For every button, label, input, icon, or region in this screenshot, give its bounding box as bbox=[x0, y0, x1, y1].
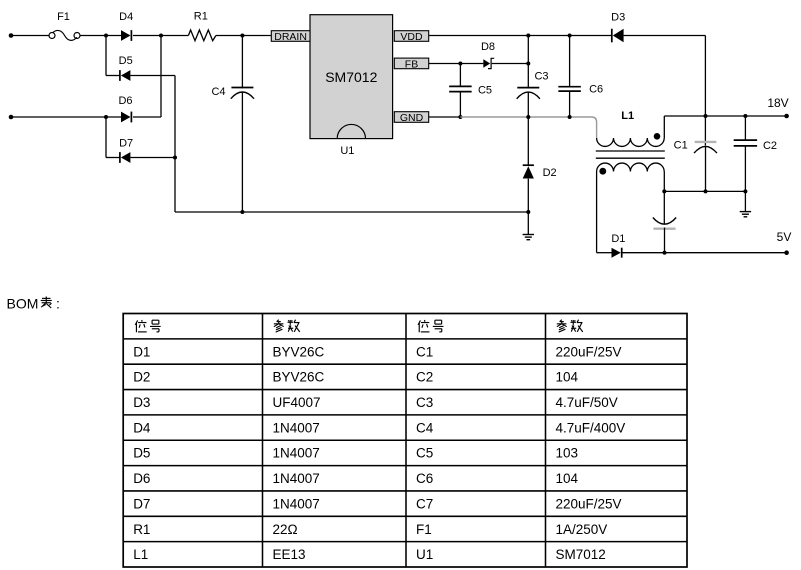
svg-text:C1: C1 bbox=[674, 140, 688, 152]
svg-text:4.7uF/400V: 4.7uF/400V bbox=[556, 420, 626, 435]
svg-text:D5: D5 bbox=[133, 446, 150, 461]
wire bbox=[160, 36, 162, 118]
wire bbox=[11, 116, 121, 118]
svg-text:F1: F1 bbox=[57, 11, 70, 23]
diode D7 bbox=[106, 137, 175, 163]
wire: primary to 18V rail bbox=[663, 116, 665, 138]
svg-text:R1: R1 bbox=[194, 10, 208, 22]
node: FB/C5 junction bbox=[458, 62, 462, 66]
svg-text:104: 104 bbox=[556, 370, 579, 385]
svg-text:C4: C4 bbox=[211, 86, 225, 98]
wire: GND pin to C5 bbox=[429, 116, 461, 118]
svg-text:C6: C6 bbox=[416, 471, 433, 486]
inductor L1 secondary winding bbox=[597, 163, 665, 175]
wire: 18V rail bbox=[664, 115, 786, 117]
svg-text:UF4007: UF4007 bbox=[273, 395, 321, 410]
svg-text:D7: D7 bbox=[119, 137, 133, 149]
svg-text:5V: 5V bbox=[777, 230, 792, 244]
node: return/secondary junction bbox=[662, 189, 666, 193]
wire: secondary left down to D1 bbox=[596, 172, 598, 253]
svg-text:BYV26C: BYV26C bbox=[273, 344, 325, 359]
svg-text:22Ω: 22Ω bbox=[273, 522, 298, 537]
ground bbox=[740, 212, 751, 217]
svg-text:C5: C5 bbox=[416, 446, 433, 461]
BOM table header row bbox=[135, 320, 582, 333]
pin DRAIN bbox=[271, 31, 310, 43]
svg-text:D6: D6 bbox=[133, 471, 150, 486]
svg-text::: : bbox=[56, 296, 60, 312]
wire: secondary return rail bbox=[664, 190, 745, 192]
wire: 5V line bbox=[622, 252, 786, 254]
wire bbox=[105, 117, 107, 158]
node: C4 top junction bbox=[240, 34, 244, 38]
svg-text:C2: C2 bbox=[416, 370, 433, 385]
wire: gray GND rail to transformer bbox=[460, 117, 596, 138]
node: VDD/C3 junction bbox=[526, 34, 530, 38]
diode D5 bbox=[106, 55, 175, 81]
wire: VDD rail bbox=[429, 35, 612, 37]
svg-text:U1: U1 bbox=[416, 547, 433, 562]
svg-text:C5: C5 bbox=[478, 84, 492, 96]
node: GND/C3 junction bbox=[526, 115, 530, 119]
svg-text:1N4007: 1N4007 bbox=[273, 496, 320, 511]
node: return/C2 junction bbox=[743, 189, 747, 193]
svg-text:1A/250V: 1A/250V bbox=[556, 522, 608, 537]
svg-text:D5: D5 bbox=[119, 55, 133, 67]
node: 18V/C1 junction bbox=[704, 114, 708, 118]
capacitor C2 bbox=[734, 116, 777, 212]
BOM table grid bbox=[123, 314, 687, 568]
svg-text:D6: D6 bbox=[118, 95, 132, 107]
svg-text:C3: C3 bbox=[416, 395, 433, 410]
svg-text:1N4007: 1N4007 bbox=[273, 446, 320, 461]
svg-text:C7: C7 bbox=[416, 496, 433, 511]
svg-text:SM7012: SM7012 bbox=[556, 547, 606, 562]
fuse F1 bbox=[49, 11, 80, 40]
svg-text:C3: C3 bbox=[534, 70, 548, 82]
svg-text:1N4007: 1N4007 bbox=[273, 420, 320, 435]
wire: secondary right down through return rail to C7 bbox=[663, 172, 665, 224]
wire: D3 output down to C1 bbox=[704, 36, 706, 146]
pin GND bbox=[394, 112, 428, 124]
svg-text:220uF/25V: 220uF/25V bbox=[556, 344, 622, 359]
node: GND/C6 junction bbox=[568, 115, 572, 119]
wire bbox=[492, 63, 529, 65]
capacitor C4 bbox=[211, 36, 254, 213]
diode D2 bbox=[523, 117, 557, 235]
node: AC input top terminal bbox=[9, 33, 14, 38]
capacitor C3 bbox=[517, 36, 549, 118]
ground bbox=[523, 235, 534, 240]
svg-text:D4: D4 bbox=[119, 11, 133, 23]
svg-text:D2: D2 bbox=[133, 370, 150, 385]
svg-text:SM7012: SM7012 bbox=[325, 69, 377, 85]
svg-text:104: 104 bbox=[556, 471, 579, 486]
svg-text:220uF/25V: 220uF/25V bbox=[556, 496, 622, 511]
node: D2/bottom-rail junction bbox=[526, 210, 530, 214]
svg-text:C2: C2 bbox=[763, 140, 777, 152]
node: D7/vertical junction bbox=[173, 156, 177, 160]
svg-text:D1: D1 bbox=[133, 344, 150, 359]
wire bbox=[133, 35, 188, 37]
svg-text:DRAIN: DRAIN bbox=[274, 31, 307, 43]
svg-text:EE13: EE13 bbox=[273, 547, 306, 562]
svg-text:FB: FB bbox=[405, 58, 418, 70]
svg-text:D8: D8 bbox=[481, 41, 495, 53]
wire bbox=[105, 36, 107, 76]
BOM heading bbox=[7, 296, 60, 312]
svg-text:U1: U1 bbox=[340, 145, 354, 157]
capacitor C7 bbox=[653, 218, 676, 253]
node: bridge top-right junction bbox=[159, 34, 163, 38]
node: VDD/C6 junction bbox=[568, 34, 572, 38]
wire: FB line bbox=[429, 63, 484, 65]
capacitor C1 bbox=[674, 140, 717, 192]
diode D4 bbox=[119, 11, 133, 41]
svg-text:L1: L1 bbox=[621, 110, 634, 122]
node: GND/C5 junction bbox=[458, 115, 462, 119]
svg-text:4.7uF/50V: 4.7uF/50V bbox=[556, 395, 618, 410]
node: return/C1 junction bbox=[704, 189, 708, 193]
svg-text:GND: GND bbox=[400, 112, 424, 124]
svg-text:F1: F1 bbox=[416, 522, 432, 537]
pin FB bbox=[394, 58, 428, 70]
node: bridge top-left junction bbox=[104, 34, 108, 38]
wire bbox=[624, 35, 706, 37]
wire bbox=[11, 35, 49, 37]
svg-text:L1: L1 bbox=[133, 547, 148, 562]
node: D8/C3 junction bbox=[526, 62, 530, 66]
svg-text:VDD: VDD bbox=[400, 31, 423, 43]
node: bridge bottom-left junction bbox=[104, 115, 108, 119]
pin VDD bbox=[394, 31, 428, 43]
wire bbox=[216, 35, 271, 37]
svg-text:R1: R1 bbox=[133, 522, 150, 537]
zener diode D8 bbox=[481, 41, 495, 69]
svg-text:18V: 18V bbox=[767, 96, 788, 110]
svg-text:D1: D1 bbox=[611, 233, 625, 245]
capacitor C5 bbox=[449, 64, 492, 118]
wire bbox=[80, 35, 121, 37]
svg-text:D3: D3 bbox=[133, 395, 150, 410]
inductor L1 primary winding bbox=[597, 110, 665, 146]
wire: bottom rail bbox=[175, 211, 528, 213]
svg-text:D2: D2 bbox=[543, 167, 557, 179]
svg-text:1N4007: 1N4007 bbox=[273, 471, 320, 486]
wire bbox=[174, 76, 176, 213]
svg-text:103: 103 bbox=[556, 446, 579, 461]
node: C4 bottom junction bbox=[240, 210, 244, 214]
diode D3 bbox=[611, 11, 625, 42]
BOM table data cells bbox=[133, 344, 625, 562]
op-amp U1 SM7012 body bbox=[310, 15, 393, 157]
node: AC input bottom terminal bbox=[9, 115, 14, 120]
svg-text:BYV26C: BYV26C bbox=[273, 370, 325, 385]
diode D1 bbox=[597, 233, 626, 258]
resistor R1 bbox=[188, 10, 216, 40]
svg-text:D7: D7 bbox=[133, 496, 150, 511]
node: 5V output terminal bbox=[777, 230, 792, 255]
svg-text:BOM: BOM bbox=[7, 296, 39, 312]
node: 5V/C7 junction bbox=[663, 251, 667, 255]
svg-text:C1: C1 bbox=[416, 344, 433, 359]
diode D6 bbox=[118, 95, 161, 122]
svg-text:C6: C6 bbox=[589, 84, 603, 96]
svg-text:C4: C4 bbox=[416, 420, 434, 435]
svg-text:D4: D4 bbox=[133, 420, 151, 435]
node: 18V/C2 junction bbox=[743, 114, 747, 118]
transformer core bbox=[596, 151, 665, 158]
node: 18V output terminal bbox=[767, 96, 789, 118]
svg-text:D3: D3 bbox=[611, 11, 625, 23]
capacitor C6 bbox=[558, 36, 603, 118]
